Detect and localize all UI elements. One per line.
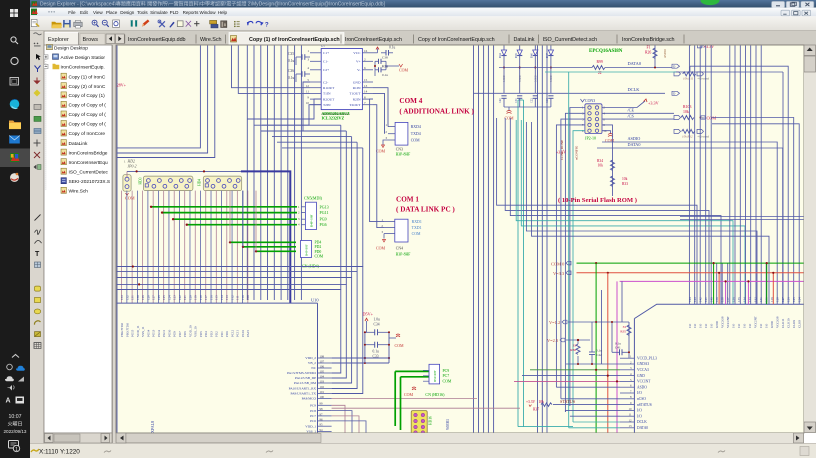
- svg-text:D44: D44: [499, 53, 502, 58]
- svg-text:1.0u: 1.0u: [374, 318, 380, 322]
- svg-text:PC12: PC12: [230, 330, 234, 337]
- svg-text:132: 132: [125, 295, 129, 300]
- svg-text:+3.3V: +3.3V: [526, 400, 536, 404]
- svg-text:VB_2: VB_2: [308, 361, 316, 365]
- svg-text:Brows: Brows: [83, 37, 99, 43]
- svg-text:V=1.2: V=1.2: [549, 320, 560, 325]
- svg-text:PG6: PG6: [320, 222, 327, 227]
- svg-text:134: 134: [743, 297, 747, 302]
- svg-text:135: 135: [737, 297, 741, 302]
- svg-text:3.3EB: 3.3EB: [519, 75, 522, 82]
- svg-text:110: 110: [241, 295, 245, 300]
- svg-text:B5P-S8F: B5P-S8F: [433, 370, 437, 382]
- svg-text:GND: GND: [715, 320, 719, 328]
- svg-text:COM 1: COM 1: [396, 196, 419, 204]
- svg-text:PB3/JTDO: PB3/JTDO: [125, 322, 129, 337]
- svg-text:94: 94: [320, 428, 324, 432]
- svg-text:V=2.5: V=2.5: [547, 338, 559, 343]
- svg-text:PD4: PD4: [204, 331, 208, 337]
- svg-text:PC9: PC9: [443, 369, 450, 373]
- svg-text:122: 122: [178, 295, 182, 300]
- svg-text:I/O: I/O: [765, 323, 769, 328]
- svg-text:X:1110 Y:1220: X:1110 Y:1220: [39, 449, 80, 456]
- svg-text:PG11: PG11: [320, 210, 329, 215]
- svg-text:+3.3V: +3.3V: [648, 101, 659, 106]
- svg-text:128: 128: [146, 295, 150, 300]
- svg-text:C38: C38: [382, 55, 388, 59]
- svg-text:HD16: HD16: [429, 416, 433, 425]
- svg-text:Place: Place: [106, 10, 118, 15]
- svg-text:Design Desktop: Design Desktop: [54, 45, 88, 51]
- svg-text:D47: D47: [546, 53, 549, 58]
- svg-text:R1IN: R1IN: [353, 86, 361, 90]
- svg-text:VDD_10: VDD_10: [188, 325, 192, 337]
- svg-text:I/O: I/O: [693, 323, 697, 328]
- svg-text:Copy of Copy of (: Copy of Copy of (: [69, 112, 107, 118]
- svg-text:COM: COM: [315, 254, 324, 258]
- svg-text:VCCIO8: VCCIO8: [776, 316, 780, 328]
- svg-text:14: 14: [364, 90, 368, 94]
- svg-text:C41: C41: [615, 346, 621, 350]
- svg-text:IronCoreInsBridge: IronCoreInsBridge: [69, 150, 108, 156]
- svg-text:116: 116: [209, 295, 213, 300]
- svg-text:IronCoreInsertEquip.: IronCoreInsertEquip.: [61, 65, 105, 71]
- svg-text:CLK11: CLK11: [781, 318, 785, 328]
- svg-text:B4P-S8F: B4P-S8F: [310, 214, 314, 227]
- svg-text:COM 0: COM 0: [551, 262, 565, 267]
- svg-text:I/O: I/O: [759, 323, 763, 328]
- svg-text:I/O: I/O: [688, 323, 692, 328]
- svg-text:RXD1: RXD1: [412, 220, 422, 224]
- svg-text:Reports: Reports: [183, 10, 200, 15]
- svg-text:ASDO: ASDO: [637, 385, 647, 389]
- svg-text:COM: COM: [404, 392, 414, 397]
- svg-text:A: A: [6, 398, 11, 405]
- svg-text:13: 13: [629, 424, 633, 428]
- svg-text:114: 114: [220, 295, 224, 300]
- svg-text:( DATA LINK PC ): ( DATA LINK PC ): [396, 206, 455, 214]
- svg-text:CONF_DONE: CONF_DONE: [560, 140, 564, 160]
- svg-text:115: 115: [215, 295, 219, 300]
- svg-text:Copy (2) of IronC: Copy (2) of IronC: [69, 84, 106, 90]
- svg-text:HD2: HD2: [127, 160, 135, 164]
- svg-text:NC: NC: [311, 366, 316, 370]
- svg-text:98: 98: [320, 407, 324, 411]
- svg-text:PG14: PG14: [146, 329, 150, 337]
- svg-text:C13: C13: [546, 98, 549, 103]
- svg-text:PD1: PD1: [220, 331, 224, 337]
- svg-text:Copy of Copy of (: Copy of Copy of (: [69, 122, 107, 128]
- svg-text:IronCoreInsertEquip.ddb: IronCoreInsertEquip.ddb: [128, 37, 186, 43]
- svg-text:PG12: PG12: [157, 329, 161, 337]
- svg-text:C40: C40: [499, 98, 502, 103]
- svg-text:124: 124: [798, 297, 802, 302]
- svg-text:131: 131: [759, 297, 763, 302]
- svg-text:COM: COM: [443, 380, 452, 384]
- svg-text:12: 12: [629, 418, 633, 422]
- svg-text:Wire.Sch: Wire.Sch: [69, 189, 89, 195]
- svg-text:PA13/JTMS-SWDIO: PA13/JTMS-SWDIO: [287, 371, 316, 375]
- svg-text:R35: R35: [620, 330, 626, 334]
- svg-text:10k R11: 10k R11: [683, 77, 694, 81]
- svg-text:/CS: /CS: [628, 113, 635, 118]
- svg-text:111: 111: [236, 295, 240, 300]
- svg-text:COM: COM: [399, 68, 409, 73]
- svg-text:PG15: PG15: [131, 329, 135, 337]
- svg-text:1: 1: [15, 447, 18, 453]
- svg-text:PA12/USB_DP: PA12/USB_DP: [295, 376, 316, 380]
- svg-text:103: 103: [320, 379, 325, 383]
- svg-text:127: 127: [781, 297, 785, 302]
- svg-text:DATA0: DATA0: [628, 142, 641, 147]
- svg-text:File: File: [68, 10, 76, 15]
- svg-text:PG11: PG11: [162, 329, 166, 337]
- svg-text:B4P-S8F: B4P-S8F: [305, 244, 309, 256]
- svg-text:TXD1: TXD1: [412, 226, 422, 230]
- svg-text:HD3: HD3: [139, 177, 143, 184]
- svg-text:VSS_11: VSS_11: [141, 326, 145, 337]
- svg-text:125: 125: [792, 297, 796, 302]
- svg-text:R34: R34: [597, 159, 603, 163]
- svg-text:PD0: PD0: [225, 331, 229, 337]
- svg-text:C22: C22: [531, 98, 534, 103]
- svg-text:126: 126: [787, 297, 791, 302]
- svg-text:nCONFIG: nCONFIG: [575, 145, 579, 160]
- svg-text:DATA0: DATA0: [628, 61, 642, 66]
- svg-text:VCCIO8: VCCIO8: [721, 316, 725, 328]
- svg-text:DataLink: DataLink: [514, 37, 535, 43]
- svg-text:104: 104: [320, 374, 325, 378]
- svg-text:PD7: PD7: [178, 331, 182, 337]
- svg-text:CLK9: CLK9: [792, 320, 796, 328]
- svg-text:Design: Design: [120, 10, 135, 15]
- svg-text:GND: GND: [770, 320, 774, 328]
- svg-text:nSTATUS: nSTATUS: [637, 403, 652, 407]
- svg-text:I/O: I/O: [637, 391, 642, 395]
- svg-text:PG13: PG13: [152, 329, 156, 337]
- svg-text:Tools: Tools: [137, 10, 148, 15]
- svg-text:0.1u: 0.1u: [615, 342, 621, 346]
- svg-text:PD6: PD6: [183, 331, 187, 337]
- svg-text:VSS_10: VSS_10: [194, 326, 198, 337]
- svg-text:火曜日: 火曜日: [7, 422, 22, 428]
- svg-text:95: 95: [320, 423, 324, 427]
- svg-text:?: ?: [265, 22, 269, 29]
- svg-text:Wire.Sch: Wire.Sch: [200, 37, 221, 43]
- svg-text:0.1u: 0.1u: [389, 46, 395, 50]
- svg-text:PA11/USB_DM: PA11/USB_DM: [294, 381, 316, 385]
- svg-text:3.3EB: 3.3EB: [503, 75, 506, 82]
- svg-text:CON3: CON3: [585, 99, 595, 103]
- svg-text:PC7: PC7: [443, 374, 450, 378]
- svg-text:PD0: PD0: [315, 250, 322, 254]
- svg-text:PC6: PC6: [310, 419, 316, 423]
- svg-text:11: 11: [629, 413, 632, 417]
- svg-text:I/O: I/O: [748, 323, 752, 328]
- svg-text:IronCoreInsertEqu: IronCoreInsertEqu: [69, 160, 109, 166]
- svg-text:VDD_2: VDD_2: [305, 356, 316, 360]
- svg-text:PA15: PA15: [246, 330, 250, 337]
- svg-text:Copy of IronCoreInsertEquip.sc: Copy of IronCoreInsertEquip.sch: [418, 37, 495, 43]
- svg-text:I/O: I/O: [637, 414, 642, 418]
- svg-text:0.1u: 0.1u: [373, 350, 379, 354]
- svg-text:Copy (1) of IronCoreInsertEqui: Copy (1) of IronCoreInsertEquip.sch: [249, 37, 340, 43]
- svg-text:PC7: PC7: [310, 414, 316, 418]
- svg-text:144: 144: [688, 297, 692, 302]
- svg-text:142: 142: [699, 297, 703, 302]
- svg-text:130: 130: [136, 295, 140, 300]
- svg-text:PB4/JTDO: PB4/JTDO: [120, 322, 124, 337]
- svg-text:PG9: PG9: [320, 217, 327, 222]
- svg-text:+Ground: +Ground: [697, 77, 709, 81]
- svg-text:VCCA3: VCCA3: [637, 368, 649, 372]
- svg-text:16: 16: [364, 49, 368, 53]
- svg-text:3.3EB: 3.3EB: [550, 75, 553, 82]
- svg-text:R37: R37: [533, 408, 539, 412]
- svg-text:10k: 10k: [598, 164, 604, 168]
- svg-text:VCCINT: VCCINT: [637, 380, 651, 384]
- svg-text:C2-: C2-: [323, 80, 329, 84]
- svg-text:COM 4: COM 4: [399, 97, 422, 105]
- svg-text:97: 97: [320, 412, 324, 416]
- svg-text:125: 125: [162, 295, 166, 300]
- svg-text:R26: R26: [645, 51, 651, 55]
- svg-text:R33: R33: [622, 182, 628, 186]
- svg-text:B3P-8HF: B3P-8HF: [396, 153, 411, 157]
- svg-text:124: 124: [167, 295, 171, 300]
- svg-text:STATUS: STATUS: [560, 399, 576, 404]
- svg-text:C34: C34: [374, 323, 380, 327]
- svg-text:11: 11: [306, 90, 309, 94]
- svg-text:3.3EB: 3.3EB: [535, 75, 538, 82]
- svg-text:CLK10: CLK10: [787, 318, 791, 328]
- svg-text:IronCoreInsertEquip.sch: IronCoreInsertEquip.sch: [345, 37, 402, 43]
- svg-text:0.1u: 0.1u: [382, 73, 388, 77]
- svg-text:R2OUT: R2OUT: [323, 97, 335, 101]
- svg-text:I/O: I/O: [699, 323, 703, 328]
- svg-text:118: 118: [199, 295, 203, 300]
- svg-text:VCCINT: VCCINT: [726, 316, 730, 328]
- svg-text:VCCINT: VCCINT: [754, 316, 758, 328]
- svg-text:COM: COM: [412, 232, 421, 236]
- svg-text:126: 126: [157, 295, 161, 300]
- svg-text:COM: COM: [376, 246, 386, 251]
- svg-text:PG13: PG13: [320, 204, 329, 209]
- svg-text:SEKI-20210723X.S: SEKI-20210723X.S: [69, 179, 111, 185]
- svg-text:V=3.3: V=3.3: [553, 271, 565, 276]
- svg-text:Copy of Copy of (: Copy of Copy of (: [69, 103, 107, 109]
- svg-text:113: 113: [225, 295, 229, 300]
- svg-text:C1+: C1+: [323, 51, 329, 55]
- svg-text:119: 119: [194, 295, 198, 300]
- svg-text:CN (HD4): CN (HD4): [302, 264, 320, 269]
- svg-text:101: 101: [320, 390, 325, 394]
- svg-text:PG10: PG10: [167, 329, 171, 337]
- svg-text:117: 117: [204, 295, 208, 300]
- svg-text:PG9: PG9: [173, 331, 177, 337]
- svg-text:141: 141: [704, 297, 708, 302]
- svg-text:0.1u: 0.1u: [596, 349, 602, 353]
- svg-text:C36: C36: [288, 69, 294, 73]
- svg-text:R99: R99: [597, 60, 603, 64]
- svg-text:XPAL8: XPAL8: [150, 421, 155, 433]
- svg-text:TXD4: TXD4: [411, 132, 421, 136]
- svg-text:132: 132: [754, 297, 758, 302]
- svg-text:C33: C33: [373, 355, 379, 359]
- svg-text:PD2: PD2: [215, 331, 219, 337]
- svg-text:107: 107: [320, 359, 325, 363]
- svg-text:GND: GND: [353, 80, 361, 84]
- svg-text:T1IN: T1IN: [323, 92, 331, 96]
- svg-text:PC9: PC9: [310, 404, 316, 408]
- svg-text:T: T: [35, 251, 40, 258]
- svg-text:I/O: I/O: [704, 323, 708, 328]
- svg-text:/CE: /CE: [628, 108, 635, 113]
- svg-text:PD4: PD4: [315, 241, 322, 245]
- svg-text:PLD: PLD: [170, 10, 180, 15]
- svg-text:I/O: I/O: [743, 323, 747, 328]
- svg-text:96: 96: [320, 417, 324, 421]
- svg-text:I/O: I/O: [732, 323, 736, 328]
- svg-text:R36: R36: [570, 348, 576, 352]
- svg-text:15: 15: [364, 78, 368, 82]
- svg-text:127: 127: [152, 295, 156, 300]
- svg-text:( 10-Pin Serial Flash ROM ): ( 10-Pin Serial Flash ROM ): [558, 197, 637, 204]
- svg-text:COM: COM: [125, 196, 135, 201]
- svg-text:129: 129: [141, 295, 145, 300]
- svg-text:T2IN: T2IN: [323, 103, 331, 107]
- svg-text:JP2-10: JP2-10: [585, 136, 596, 141]
- svg-text:COM: COM: [395, 343, 405, 348]
- svg-text:CN5(MDI): CN5(MDI): [304, 196, 323, 201]
- svg-text:( ADDITIONAL LINK ): ( ADDITIONAL LINK ): [399, 108, 474, 116]
- svg-text:CLK8: CLK8: [798, 320, 802, 328]
- svg-text:U10: U10: [311, 298, 319, 303]
- svg-text:V+: V+: [356, 60, 361, 64]
- svg-text:131: 131: [131, 295, 135, 300]
- svg-text:GND: GND: [637, 374, 645, 378]
- svg-text:JP0-2: JP0-2: [128, 165, 137, 169]
- svg-text:ICL3232IVZ: ICL3232IVZ: [322, 116, 345, 121]
- svg-text:RXD4: RXD4: [411, 125, 421, 129]
- svg-text:VDD_11: VDD_11: [136, 325, 140, 337]
- svg-text:D45: D45: [515, 53, 518, 58]
- svg-text:112: 112: [230, 295, 234, 300]
- svg-text:Copy of IronCore: Copy of IronCore: [69, 131, 106, 137]
- svg-text:PD5: PD5: [199, 331, 203, 337]
- svg-text:ASDIO: ASDIO: [628, 136, 641, 141]
- svg-text:123: 123: [173, 295, 177, 300]
- svg-text:Copy (1) of IronC: Copy (1) of IronC: [69, 74, 106, 80]
- svg-text:D46: D46: [531, 53, 534, 58]
- svg-text:Design Explorer - [C:\workspac: Design Explorer - [C:\workspace4\專題應用資料 …: [40, 1, 386, 8]
- svg-text:DCLK: DCLK: [637, 420, 647, 424]
- svg-text:C42: C42: [596, 353, 602, 357]
- svg-text:CN4: CN4: [396, 247, 403, 251]
- svg-text:143: 143: [693, 297, 697, 302]
- svg-text:PC10: PC10: [241, 330, 245, 337]
- svg-text:99: 99: [320, 402, 324, 406]
- svg-text:I/O: I/O: [737, 323, 741, 328]
- svg-text:12: 12: [306, 84, 310, 88]
- svg-text:PD2: PD2: [315, 245, 322, 249]
- svg-text:10:07: 10:07: [9, 414, 22, 420]
- svg-text:136: 136: [732, 297, 736, 302]
- svg-text:B3P-8HF: B3P-8HF: [396, 253, 411, 257]
- svg-text:COM: COM: [505, 116, 515, 121]
- svg-text:0.1u: 0.1u: [288, 76, 294, 80]
- svg-text:105: 105: [320, 369, 325, 373]
- svg-text:33: 33: [573, 344, 577, 348]
- svg-text:0.1u: 0.1u: [288, 59, 294, 63]
- svg-text:Explorer: Explorer: [48, 37, 69, 43]
- svg-text:D5V+: D5V+: [363, 312, 374, 317]
- svg-text:10k: 10k: [622, 177, 628, 181]
- svg-text:GNDA3: GNDA3: [637, 362, 649, 366]
- svg-text:120: 120: [188, 295, 192, 300]
- svg-text:VCCD_PLL3: VCCD_PLL3: [637, 356, 657, 360]
- svg-text:R1OUT: R1OUT: [323, 86, 335, 90]
- svg-text:I/O: I/O: [710, 323, 714, 328]
- svg-text:VDD_1: VDD_1: [305, 424, 316, 428]
- svg-text:140: 140: [710, 297, 714, 302]
- svg-text:C2+: C2+: [323, 68, 329, 72]
- svg-text:Simulate: Simulate: [150, 10, 168, 15]
- svg-text:DCLK: DCLK: [628, 87, 641, 92]
- svg-text:108: 108: [320, 354, 325, 358]
- svg-text:C1-: C1-: [323, 60, 329, 64]
- svg-text:CN (HD16): CN (HD16): [425, 392, 445, 397]
- svg-text:+Ground: +Ground: [697, 135, 709, 139]
- svg-text:F1: F1: [647, 46, 651, 50]
- svg-text:Copy of Copy (1): Copy of Copy (1): [69, 93, 106, 99]
- svg-text:109: 109: [246, 295, 250, 300]
- svg-text:10k: 10k: [683, 110, 689, 114]
- svg-text:Active Design Statior: Active Design Statior: [61, 55, 106, 61]
- svg-text:PC8: PC8: [310, 409, 316, 413]
- svg-text:128: 128: [776, 297, 780, 302]
- svg-text:PA8/MCO: PA8/MCO: [302, 397, 317, 401]
- svg-text:VCC: VCC: [353, 51, 361, 55]
- svg-text:R103: R103: [683, 105, 691, 109]
- svg-text:133: 133: [120, 295, 124, 300]
- svg-text:ASDIO: ASDIO: [663, 48, 667, 58]
- svg-text:2022/09/13: 2022/09/13: [3, 429, 26, 434]
- svg-text:T1OUT: T1OUT: [349, 92, 361, 96]
- svg-text:CN3: CN3: [396, 148, 403, 152]
- svg-text:100: 100: [320, 395, 325, 399]
- svg-text:106: 106: [320, 364, 325, 368]
- svg-text:WMH1: WMH1: [446, 419, 450, 430]
- svg-text:10: 10: [629, 407, 633, 411]
- svg-text:nCSO: nCSO: [637, 397, 646, 401]
- svg-text:PD3: PD3: [209, 331, 213, 337]
- svg-text:R2IN: R2IN: [353, 97, 361, 101]
- svg-text:ISO_CurrentDetec: ISO_CurrentDetec: [69, 169, 109, 175]
- svg-text:Window: Window: [200, 10, 217, 15]
- svg-text:T2OUT: T2OUT: [349, 103, 361, 107]
- svg-text:DATA0: DATA0: [637, 426, 648, 430]
- svg-text:28V+: 28V+: [117, 83, 127, 88]
- svg-text:Help: Help: [218, 10, 228, 15]
- svg-text:COM: COM: [376, 149, 386, 154]
- svg-text:C31: C31: [515, 98, 518, 103]
- svg-text:IronCoreInsBridge.sch: IronCoreInsBridge.sch: [622, 37, 675, 43]
- svg-text:102: 102: [320, 385, 325, 389]
- svg-text:ISO_CurrentDetect.sch: ISO_CurrentDetect.sch: [543, 37, 598, 43]
- svg-text:10k R12: 10k R12: [682, 135, 693, 139]
- svg-text:PC11: PC11: [236, 330, 240, 337]
